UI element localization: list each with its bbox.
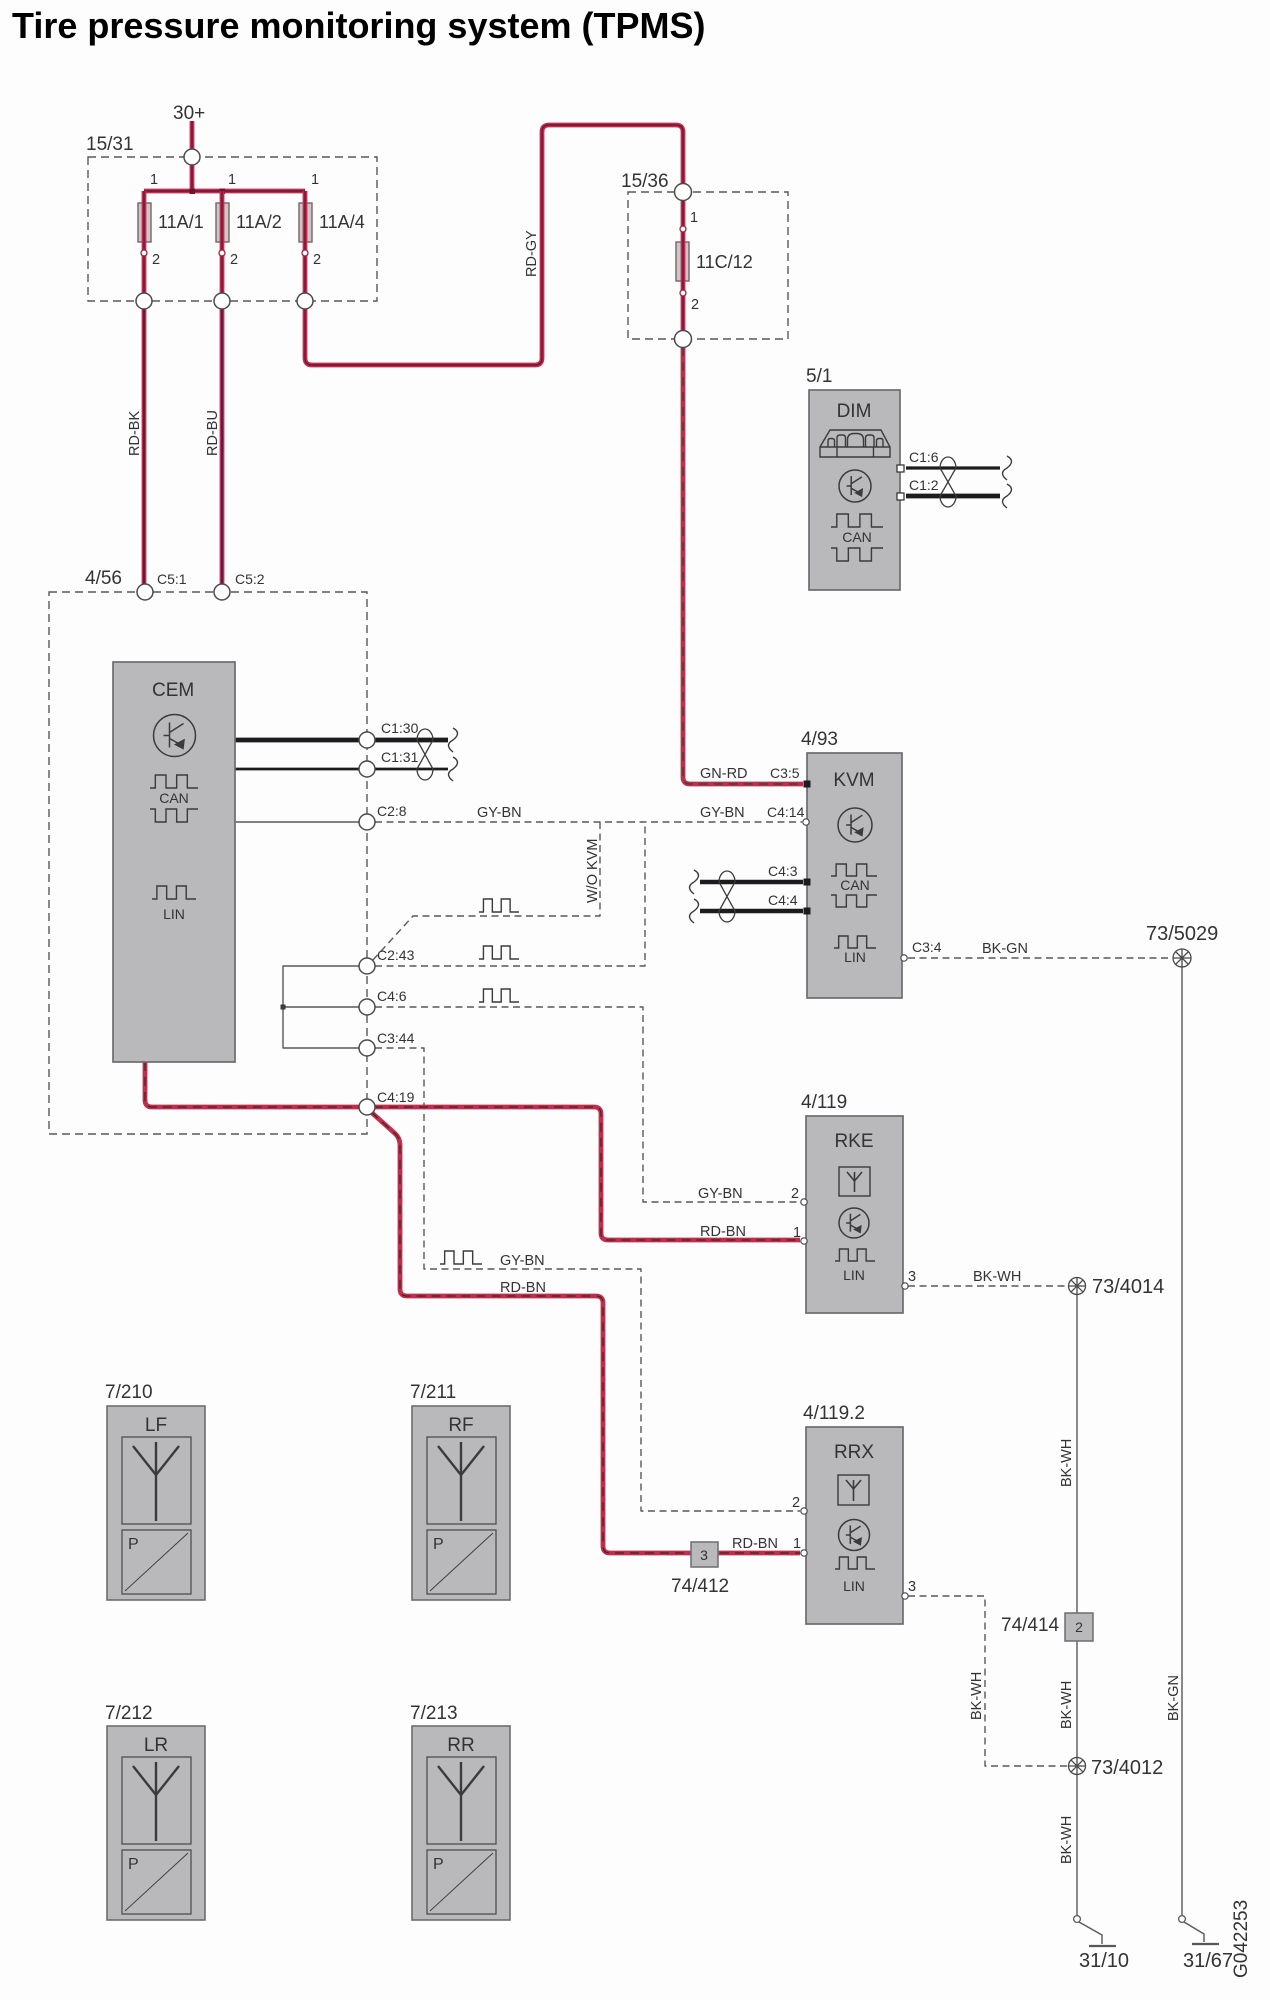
node CEM C4:19 [359, 1099, 375, 1115]
transistor icon RKE [839, 1208, 869, 1238]
CAN icon KVM [831, 864, 877, 876]
svg-text:2: 2 [691, 297, 699, 313]
svg-text:BK-WH: BK-WH [1059, 1681, 1075, 1729]
pin C3:5 KVM [804, 781, 811, 788]
junction node at 30+ tap [190, 189, 196, 195]
wire W/O KVM branch (dashed) [372, 822, 600, 961]
ground 31/10 [1074, 1916, 1081, 1923]
pin 1 RKE [801, 1238, 807, 1244]
svg-text:C5:1: C5:1 [157, 571, 187, 587]
wire CAN-H CEM C1:30 [235, 738, 448, 743]
wire CAN KVM C4:4 [700, 909, 803, 913]
svg-text:BK-WH: BK-WH [1059, 1439, 1075, 1487]
svg-text:73/4014: 73/4014 [1092, 1276, 1164, 1298]
svg-text:P: P [128, 1536, 139, 1553]
node CEM C2:43 [359, 958, 375, 974]
fuse holder box 15/31 (dashed) [88, 157, 377, 301]
svg-text:BK-GN: BK-GN [1166, 1675, 1182, 1721]
wire CAN-L CEM C1:31 [235, 768, 448, 771]
module CEM 4/56 [113, 662, 235, 1062]
svg-text:4/56: 4/56 [85, 568, 122, 589]
node CEM C2:8 [359, 814, 375, 830]
svg-text:C1:30: C1:30 [381, 720, 419, 736]
pin 2 RKE [801, 1199, 807, 1205]
fuse leg through 11A/2 [220, 191, 225, 293]
pin C1:2 DIM [897, 493, 904, 500]
svg-text:30+: 30+ [173, 103, 205, 124]
svg-text:C4:19: C4:19 [377, 1089, 415, 1105]
wire BK-GN splice 73/5029 down to ground 31/67 [1181, 967, 1183, 1915]
svg-text:73/4012: 73/4012 [1091, 1757, 1163, 1779]
svg-text:LR: LR [144, 1735, 168, 1756]
svg-text:31/10: 31/10 [1079, 1950, 1129, 1972]
svg-text:C3:44: C3:44 [377, 1030, 415, 1046]
CEM connector boundary box 4/56 (dashed) [49, 592, 367, 1134]
fuse 11A/2 [216, 203, 229, 242]
CAN icon CEM [150, 775, 198, 788]
wire RD-GY from fuse 11A/4 to fuse holder 15/36 [305, 125, 683, 365]
svg-text:1: 1 [690, 210, 698, 226]
svg-text:15/31: 15/31 [86, 134, 134, 155]
svg-text:LIN: LIN [843, 1267, 865, 1283]
svg-text:C3:4: C3:4 [912, 939, 942, 955]
svg-text:G042253: G042253 [1231, 1900, 1252, 1978]
node 30+ entry 15/31 [184, 149, 200, 165]
wire RD from CEM bottom to C4:19 [145, 1062, 360, 1107]
wire CAN KVM C4:3 [700, 880, 803, 884]
pin rings fuse 11C/12 [680, 226, 686, 232]
svg-text:4/119.2: 4/119.2 [803, 1403, 865, 1424]
svg-text:C4:4: C4:4 [768, 892, 798, 908]
svg-text:1: 1 [793, 1225, 801, 1241]
svg-text:BK-WH: BK-WH [1059, 1816, 1075, 1864]
ground 31/67 [1179, 1916, 1186, 1923]
pin C3:4 KVM [901, 955, 907, 961]
svg-text:2: 2 [230, 252, 238, 268]
antenna icon RRX [838, 1475, 869, 1505]
svg-text:RKE: RKE [834, 1131, 873, 1152]
svg-text:C4:6: C4:6 [377, 988, 407, 1004]
svg-text:GY-BN: GY-BN [477, 805, 522, 821]
node CEM C5:2 [214, 584, 230, 600]
node 15/36 top [675, 184, 692, 201]
wire GY-BN from CEM C2:8 to KVM C4:14 (dashed) [375, 821, 802, 823]
svg-text:74/412: 74/412 [671, 1576, 729, 1597]
pin 3 RRX [902, 1593, 908, 1599]
svg-text:73/5029: 73/5029 [1146, 923, 1218, 945]
svg-text:CAN: CAN [842, 529, 872, 545]
svg-text:CEM: CEM [152, 680, 194, 701]
LIN icon CEM [152, 886, 196, 899]
twisted pair symbol CEM CAN [417, 729, 433, 780]
wire GY-BN from CEM C4:6 to RKE pin 2 (dashed) [375, 1007, 800, 1202]
svg-text:BK-WH: BK-WH [973, 1269, 1021, 1285]
svg-text:11A/2: 11A/2 [236, 212, 282, 232]
svg-text:BK-WH: BK-WH [969, 1672, 985, 1720]
svg-text:GY-BN: GY-BN [700, 805, 745, 821]
svg-text:3: 3 [700, 1547, 708, 1563]
svg-text:RD-BU: RD-BU [205, 410, 221, 456]
svg-text:RD-BN: RD-BN [500, 1280, 546, 1296]
svg-text:1: 1 [228, 172, 236, 188]
svg-text:C4:3: C4:3 [768, 863, 798, 879]
transistor icon DIM [839, 470, 871, 502]
pin C4:3 KVM [804, 879, 811, 886]
fuse leg through 11A/4 [303, 191, 308, 293]
svg-text:7/212: 7/212 [105, 1703, 153, 1724]
svg-text:Tire pressure monitoring syste: Tire pressure monitoring system (TPMS) [12, 5, 706, 46]
svg-text:7/210: 7/210 [105, 1382, 153, 1403]
node CEM C3:44 [359, 1040, 375, 1056]
svg-text:C3:5: C3:5 [770, 765, 800, 781]
svg-text:GN-RD: GN-RD [700, 766, 748, 782]
wire stub CEM C2:8 [235, 821, 360, 823]
wire BK-WH splice 73/4012 down to ground 31/10 [1076, 1775, 1078, 1915]
svg-text:3: 3 [908, 1579, 916, 1595]
instrument cluster icon DIM [820, 430, 890, 457]
svg-text:RD-BK: RD-BK [127, 411, 143, 456]
svg-text:P: P [433, 1536, 444, 1553]
svg-text:15/36: 15/36 [621, 171, 669, 192]
svg-text:C2:43: C2:43 [377, 947, 415, 963]
transistor icon RRX [839, 1520, 870, 1551]
svg-text:W/O KVM: W/O KVM [585, 839, 601, 903]
svg-text:LF: LF [145, 1415, 167, 1436]
node CEM C5:1 [137, 584, 153, 600]
node CEM C1:30 [359, 732, 375, 748]
red bus inside 15/31 [144, 189, 305, 194]
fuse leg through 11A/1 [142, 191, 147, 293]
svg-text:KVM: KVM [833, 770, 874, 791]
wire from CEM C2:43 up to GY-BN line (dashed) [375, 826, 645, 966]
svg-text:CAN: CAN [840, 877, 870, 893]
svg-text:2: 2 [791, 1186, 799, 1202]
connector 74/412 (3) [691, 1542, 718, 1567]
wire RD-BK from fuse 11A/1 to CEM C5:1 [142, 309, 147, 584]
wire BK-WH from RKE pin 3 to splice 73/4014 (dashed) [908, 1285, 1068, 1287]
wire RD-BN branch from C4:19 to RRX pin 1 [371, 1112, 800, 1553]
pin C4:14 KVM [803, 819, 809, 825]
wire BK-GN from KVM C3:4 to splice 73/5029 (dashed) [908, 957, 1172, 959]
splice 73/4012 [1069, 1758, 1086, 1775]
svg-text:RD-BN: RD-BN [700, 1224, 746, 1240]
svg-text:P: P [433, 1856, 444, 1873]
splice 73/5029 [1173, 949, 1191, 967]
LIN icon RRX [835, 1557, 875, 1569]
svg-text:2: 2 [792, 1495, 800, 1511]
wire BK-WH from RRX pin 3 to splice 73/4012 (dashed) [908, 1596, 1068, 1766]
svg-text:C1:31: C1:31 [381, 749, 419, 765]
svg-text:C1:2: C1:2 [909, 477, 939, 493]
svg-text:31/67: 31/67 [1183, 1950, 1233, 1972]
wire CAN DIM C1:2 [906, 494, 1000, 499]
pin C1:6 DIM [897, 465, 904, 472]
wire GY-BN from CEM C3:44 to RRX pin 2 (dashed) [375, 1048, 800, 1511]
transistor icon CEM [154, 715, 196, 757]
CAN icon DIM [831, 514, 883, 527]
svg-text:11C/12: 11C/12 [696, 252, 753, 272]
svg-text:BK-GN: BK-GN [982, 941, 1028, 957]
svg-text:4/93: 4/93 [801, 729, 838, 750]
svg-text:5/1: 5/1 [806, 366, 832, 387]
svg-text:LIN: LIN [843, 1578, 865, 1594]
twisted pair symbol DIM CAN [940, 457, 956, 507]
fuse 11A/1 [138, 203, 151, 242]
junction node at fuse 11A/2 tap [220, 189, 226, 195]
svg-text:74/414: 74/414 [1001, 1615, 1060, 1636]
svg-text:RD-GY: RD-GY [524, 230, 540, 277]
fuse 11A/4 [299, 203, 312, 242]
svg-text:11A/4: 11A/4 [319, 212, 365, 232]
svg-text:P: P [128, 1856, 139, 1873]
pin 2 RRX [801, 1508, 807, 1514]
svg-text:3: 3 [908, 1269, 916, 1285]
fuse 11C/12 [676, 242, 689, 281]
node 15/36 bottom [675, 331, 692, 348]
svg-text:1: 1 [311, 172, 319, 188]
pin rings fuses 15/31 [141, 250, 147, 256]
svg-text:CAN: CAN [159, 790, 189, 806]
svg-text:7/211: 7/211 [410, 1382, 456, 1403]
svg-text:RRX: RRX [834, 1442, 874, 1463]
svg-text:C2:8: C2:8 [377, 803, 407, 819]
wire RD-BU from fuse 11A/2 to CEM C5:2 [220, 309, 225, 584]
wire BK-WH splice 73/4014 down to splice 73/4012 [1076, 1295, 1078, 1757]
transistor icon KVM [838, 808, 872, 842]
link bus joining C2:43 C4:6 C3:44 [283, 966, 360, 1048]
LIN icon RKE [835, 1249, 875, 1261]
pin C4:4 KVM [804, 908, 811, 915]
svg-text:RR: RR [447, 1735, 474, 1756]
pin 1 RRX [801, 1550, 807, 1556]
connector 74/414 (2) [1065, 1613, 1093, 1641]
svg-text:C5:2: C5:2 [235, 571, 265, 587]
svg-text:1: 1 [150, 172, 158, 188]
svg-text:2: 2 [152, 252, 160, 268]
junction dot [281, 1005, 286, 1010]
wire GN-RD from 15/36 to KVM C3:5 [683, 347, 803, 784]
wire RD-BN from C4:19 to RKE pin 1 [374, 1107, 800, 1240]
fuse holder box 15/36 (dashed) [628, 192, 788, 339]
svg-text:1: 1 [793, 1536, 801, 1552]
pin 3 RKE [902, 1283, 908, 1289]
svg-text:LIN: LIN [844, 949, 866, 965]
splice 73/4014 [1069, 1278, 1086, 1295]
svg-text:2: 2 [1075, 1619, 1083, 1635]
twisted pair symbol KVM CAN [719, 871, 735, 922]
svg-text:11A/1: 11A/1 [158, 212, 204, 232]
antenna icon RKE [839, 1167, 870, 1196]
svg-text:RF: RF [448, 1415, 473, 1436]
svg-text:GY-BN: GY-BN [500, 1253, 545, 1269]
svg-text:DIM: DIM [837, 401, 872, 422]
svg-text:RD-BN: RD-BN [732, 1536, 778, 1552]
node CEM C4:6 [359, 999, 375, 1015]
node fuse outputs 15/31 [136, 293, 152, 309]
svg-text:GY-BN: GY-BN [698, 1186, 743, 1202]
svg-text:C1:6: C1:6 [909, 449, 939, 465]
node CEM C1:31 [359, 761, 375, 777]
LIN icon KVM [834, 936, 876, 948]
svg-text:C4:14: C4:14 [767, 804, 805, 820]
svg-text:2: 2 [313, 252, 321, 268]
svg-text:4/119: 4/119 [801, 1092, 847, 1113]
svg-text:LIN: LIN [163, 906, 185, 922]
svg-text:7/213: 7/213 [410, 1703, 458, 1724]
wire CAN DIM C1:6 [906, 466, 1000, 469]
